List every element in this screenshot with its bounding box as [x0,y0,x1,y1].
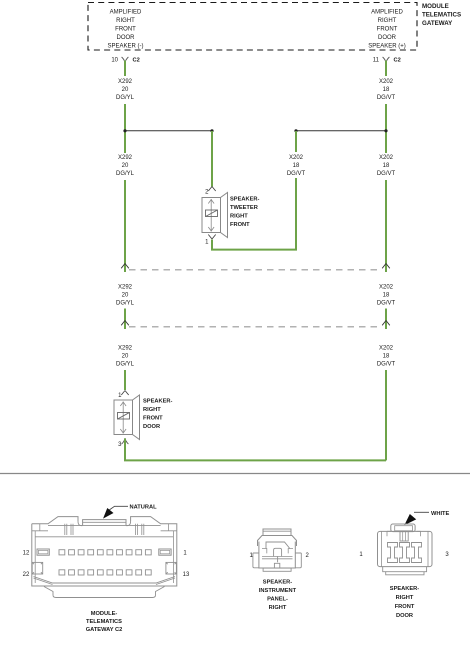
svg-text:20: 20 [122,293,129,299]
svg-text:1: 1 [205,240,209,246]
IP speaker connector side flange left [253,553,259,568]
svg-text:FRONT: FRONT [115,27,136,33]
svg-text:NATURAL: NATURAL [130,505,158,511]
module M1 telematics gateway dashed box [88,3,417,51]
connector view: module-telematics gateway C2 drawing [32,517,177,598]
connector view C2 label NATURAL with leader arrow [104,505,157,518]
C2 latch center bar [83,520,126,526]
svg-text:GATEWAY: GATEWAY [422,20,453,27]
svg-text:2: 2 [306,553,310,559]
wire X202 DG/VT run to inline connector row 1 [385,180,387,272]
C2 base lip [44,587,165,598]
svg-text:RIGHT: RIGHT [269,605,287,611]
svg-text:FRONT: FRONT [395,604,415,610]
svg-text:22: 22 [23,572,30,578]
IP speaker connector body [259,542,295,569]
module M1 left pin function label: AMPLIFIED RIGHT FRONT DOOR SPEAKER (-) [107,10,143,50]
C2 inner ledge line [35,536,173,538]
wire label X202 18 DG/VT (stack 2 middle) [287,155,306,177]
wire label X292 20 DG/YL (stack 4 left) [116,346,135,368]
svg-text:18: 18 [293,163,300,169]
svg-text:1: 1 [118,393,122,399]
wire label X292 20 DG/YL (stack 3 left) [116,285,135,307]
svg-text:TWEETER: TWEETER [230,205,258,211]
wire X202 segment between rows [385,309,387,330]
svg-text:X292: X292 [118,346,133,352]
C2 corner retainer right [166,562,177,574]
splice junction left (node to tweeter pin 2) [123,129,213,132]
svg-text:X292: X292 [118,79,133,85]
inline connector row 1 dashed line [129,269,382,271]
inline connector row 2 chevron left [121,321,129,326]
svg-text:DOOR: DOOR [378,35,397,41]
svg-text:GATEWAY C2: GATEWAY C2 [86,627,123,633]
svg-text:DG/YL: DG/YL [116,171,135,177]
door speaker connector terminal 2 [400,543,410,563]
C2 outer body [32,517,177,586]
wire X202 run down right side [385,370,387,460]
svg-text:RIGHT: RIGHT [378,18,397,24]
svg-text:10: 10 [111,58,118,64]
wire X292 DG/YL run to inline connector row 1 [124,180,126,272]
svg-text:DG/VT: DG/VT [377,171,396,177]
svg-text:SPEAKER (-): SPEAKER (-) [107,44,143,50]
svg-text:WHITE: WHITE [431,511,450,517]
wire label X202 18 DG/VT (stack 2 right) [377,155,396,177]
wire X292 segment between rows [124,309,126,330]
C2 pin row 1 end cavity left [37,549,49,555]
svg-text:DG/VT: DG/VT [377,95,396,101]
svg-text:3: 3 [118,442,122,448]
svg-text:DOOR: DOOR [117,35,136,41]
wire label X202 18 DG/VT (stack 4 right) [377,346,396,368]
svg-text:DOOR: DOOR [396,613,413,619]
svg-text:20: 20 [122,354,129,360]
wire X202 DG/VT segment to junction [385,104,387,153]
svg-text:X202: X202 [379,79,394,85]
caption SPEAKER-INSTRUMENT PANEL-RIGHT [259,580,297,612]
svg-text:1: 1 [359,552,363,558]
svg-text:13: 13 [183,572,190,578]
caption SPEAKER-RIGHT FRONT DOOR [390,586,419,619]
door speaker connector body [378,531,433,566]
wire label X202 18 DG/VT (stack 3 right) [377,285,396,307]
door speaker S2 pin 1 [118,391,129,400]
module M1 right pin function label: AMPLIFIED RIGHT FRONT DOOR SPEAKER (+) [368,10,406,50]
speaker tweeter S1 name text [230,197,259,229]
inline connector row 2 dashed line [129,326,382,328]
wire X202 DG/VT segment from pin 11 [385,61,387,77]
svg-text:FRONT: FRONT [377,27,398,33]
svg-text:12: 12 [23,551,30,557]
door speaker connector terminal 1 [388,543,398,563]
svg-text:FRONT: FRONT [230,222,250,228]
splice junction right (node to tweeter pin 1) [294,129,387,132]
wire X292 DG/YL segment to junction [124,104,126,153]
speaker right front door S2 body [114,395,140,440]
wire label X292 20 DG/YL (stack 2 left) [116,155,135,177]
svg-text:AMPLIFIED: AMPLIFIED [110,10,142,16]
svg-text:DG/VT: DG/VT [377,362,396,368]
door speaker connector collar [387,531,421,536]
svg-text:3: 3 [445,552,449,558]
wire from door speaker pin 3 along bottom to right riser [125,439,386,461]
svg-text:DOOR: DOOR [143,424,160,430]
svg-text:X292: X292 [118,285,133,291]
C2 corner retainer left [32,562,43,574]
C2 pin row 1 end cavity right [159,549,171,555]
inline connector row 1 chevron right [382,264,390,269]
wire X292 run to door speaker pin 1 [124,370,126,390]
connector view: speaker-instrument panel-right drawing [253,529,301,571]
C2 latch guide slots [65,524,73,535]
inline connector row 1 chevron left [121,264,129,269]
IP speaker connector bottom notch and strip [274,563,279,568]
svg-text:PANEL-: PANEL- [267,597,288,603]
IP speaker connector shoulder [258,536,297,547]
module M1 name: MODULE TELEMATICS GATEWAY [422,3,461,27]
svg-text:DG/YL: DG/YL [116,95,135,101]
IP speaker connector center key [274,548,282,556]
svg-text:SPEAKER (+): SPEAKER (+) [368,44,406,50]
speaker tweeter S1 pin 2 [205,187,216,196]
svg-text:18: 18 [383,87,390,93]
svg-text:X202: X202 [379,285,394,291]
svg-text:RIGHT: RIGHT [396,595,414,601]
svg-text:SPEAKER-: SPEAKER- [263,580,292,586]
C2 latch hooks [78,521,131,526]
svg-text:11: 11 [373,58,380,64]
svg-text:FRONT: FRONT [143,416,163,422]
svg-text:RIGHT: RIGHT [143,407,161,413]
svg-text:TELEMATICS: TELEMATICS [422,12,461,19]
svg-text:TELEMATICS: TELEMATICS [86,619,122,625]
svg-text:DG/VT: DG/VT [287,171,306,177]
C2 pin row 2 small cavities [59,570,151,575]
speaker-tweeter right front S1 body [202,193,228,238]
door speaker S2 name text [143,399,172,431]
svg-text:1: 1 [183,551,187,557]
svg-text:18: 18 [383,293,390,299]
svg-text:18: 18 [383,163,390,169]
svg-text:DG/YL: DG/YL [116,362,135,368]
svg-text:SPEAKER-: SPEAKER- [143,399,172,405]
svg-text:AMPLIFIED: AMPLIFIED [371,10,403,16]
svg-text:DG/VT: DG/VT [377,301,396,307]
IP speaker connector side flange right [295,553,301,568]
svg-text:X202: X202 [379,155,394,161]
C2 bottom inner slants and strip [34,577,176,584]
IP speaker connector inner cavity [266,542,290,549]
inline connector row 2 chevron right [382,321,390,326]
door speaker S2 pin 3 [118,438,128,448]
door speaker connector terminal 3 [412,543,422,563]
svg-text:20: 20 [122,87,129,93]
door speaker connector center key [400,532,408,541]
pin 10 C2 (module left) [111,57,139,64]
svg-text:X202: X202 [379,346,394,352]
svg-text:MODULE: MODULE [422,3,449,10]
IP speaker connector top tab [263,529,291,536]
door speaker connector bottom strips [383,567,427,572]
wire label X292 20 DG/YL (stack 1 left) [116,79,135,101]
svg-text:RIGHT: RIGHT [116,18,135,24]
svg-text:X202: X202 [289,155,304,161]
speaker tweeter S1 pin 1 [205,235,216,246]
svg-text:X292: X292 [118,155,133,161]
door speaker connector top tab [391,524,415,532]
wire label X202 18 DG/VT (stack 1 right) [377,79,396,101]
svg-text:C2: C2 [133,58,140,64]
svg-text:RIGHT: RIGHT [230,214,248,220]
svg-text:SPEAKER-: SPEAKER- [230,197,259,203]
C2 pin row 1 small cavities [59,550,151,555]
svg-text:18: 18 [383,354,390,360]
caption MODULE-TELEMATICS GATEWAY C2 [86,611,123,633]
svg-text:INSTRUMENT: INSTRUMENT [259,588,297,594]
svg-text:DG/YL: DG/YL [116,301,135,307]
svg-text:20: 20 [122,163,129,169]
wire from tweeter pin 1 to junction riser [212,178,296,250]
connector view: speaker-right front door drawing [378,524,433,575]
connector view label WHITE with leader arrow [406,511,450,524]
svg-text:MODULE-: MODULE- [91,611,118,617]
pin 11 C2 (module right) [373,57,401,64]
svg-text:SPEAKER-: SPEAKER- [390,586,419,592]
svg-text:C2: C2 [394,58,401,64]
wire branch X202 from junction (short) [295,131,297,152]
wire X292 DG/YL segment from pin 10 [124,61,126,77]
wire branch to tweeter pin 2 [211,131,213,187]
separator rule between schematic and connector views [0,473,470,475]
